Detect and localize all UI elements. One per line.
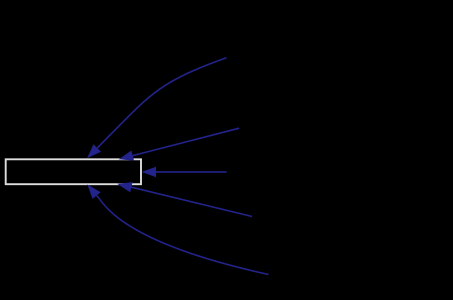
arrow 5 (bottom curved connector) bbox=[97, 196, 269, 275]
wire bbox=[133, 128, 240, 155]
wire bbox=[97, 196, 269, 275]
arrowhead 3 bbox=[142, 167, 157, 178]
wire bbox=[156, 171, 227, 173]
arrow 1 (top curved connector) bbox=[97, 58, 226, 148]
arrow 3 (horizontal connector) bbox=[156, 171, 227, 173]
wire bbox=[131, 187, 252, 216]
arrowhead 4 bbox=[117, 182, 132, 192]
wire bbox=[97, 58, 226, 148]
arrow 2 (upper slanted connector) bbox=[133, 128, 240, 155]
arrowhead 1 bbox=[87, 144, 101, 158]
effect box (white outlined rectangle) bbox=[6, 159, 141, 184]
arrowhead 2 bbox=[119, 151, 134, 161]
arrowhead 5 bbox=[87, 184, 100, 199]
arrow 4 (lower slanted connector) bbox=[131, 187, 252, 216]
